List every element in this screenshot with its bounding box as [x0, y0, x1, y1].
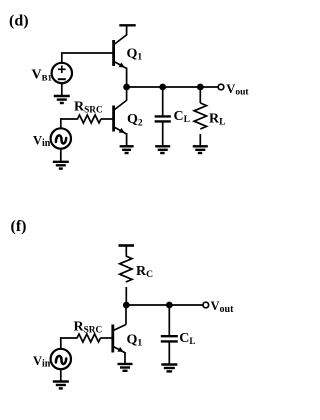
wire: RSRC to Q2 base — [101, 118, 113, 120]
supply rail bar (f) — [119, 244, 135, 247]
output wire (d) — [127, 86, 218, 88]
terminal vout (f) — [203, 302, 209, 308]
transistor Q1 — [114, 35, 127, 69]
terminal vout (d) — [218, 84, 224, 90]
resistor RSRC (f) — [77, 334, 101, 342]
wire: vin to RSRC (f) — [61, 338, 78, 349]
ground (vin f) — [53, 382, 69, 389]
supply rail bar (d) — [119, 24, 135, 26]
capacitor CL (d) — [155, 116, 171, 121]
ground (VB1) — [54, 96, 70, 103]
wire: node to RL (d) — [199, 87, 201, 103]
node: CL junction (d) — [159, 84, 166, 91]
ground (Q1 f) — [118, 364, 133, 371]
source vin (f) — [51, 349, 71, 369]
wire: Q2 emitter to ground — [126, 133, 128, 146]
wire: supply to RC — [125, 246, 127, 257]
ground (Q2) — [120, 146, 134, 153]
svg-text:(f): (f) — [11, 218, 27, 235]
wire: VB1 to Q1 base — [62, 53, 113, 63]
wire: supply to Q1 collector — [126, 26, 128, 36]
node: RC / collector junction — [123, 302, 130, 309]
output wire (f) — [126, 304, 202, 306]
wire: CL to ground (d) — [162, 122, 164, 146]
wire: Q2 collector to output node — [126, 87, 128, 100]
wire: RSRC to Q1 base (f) — [100, 337, 112, 339]
node: RL junction (d) — [197, 84, 204, 91]
voltage source VB1 — [52, 63, 72, 83]
wire: Q1 emitter to output node — [126, 68, 128, 89]
wire: RC to node — [125, 287, 127, 305]
resistor RSRC (d) — [78, 115, 102, 123]
source vin (d) — [51, 128, 71, 148]
wire: VB1 to ground — [61, 83, 63, 96]
wire: vin to RSRC — [61, 119, 78, 129]
wire: Q1 emitter to ground (f) — [124, 352, 126, 364]
wire: node to CL (d) — [162, 87, 164, 116]
wire: vin to ground (d) — [60, 148, 62, 161]
resistor RL (d) — [194, 103, 206, 129]
transistor Q1 (f) — [113, 325, 126, 353]
wire: vin to ground (f) — [60, 369, 62, 381]
ground (CL d) — [155, 146, 170, 153]
transistor Q2 — [114, 100, 127, 134]
ground (RL d) — [193, 146, 208, 153]
wire: RL to ground (d) — [199, 134, 201, 146]
svg-text:(d): (d) — [9, 13, 29, 30]
resistor RC — [120, 256, 132, 282]
ground (CL f) — [161, 365, 177, 372]
node: CL junction (f) — [166, 302, 173, 309]
capacitor CL (f) — [161, 336, 178, 341]
wire: CL to ground (f) — [168, 342, 170, 364]
wire: node to CL (f) — [168, 305, 170, 335]
ground (vin d) — [53, 162, 69, 169]
wire: node to Q1 collector (f) — [125, 305, 127, 325]
node: Q1 emitter junction — [123, 84, 130, 91]
